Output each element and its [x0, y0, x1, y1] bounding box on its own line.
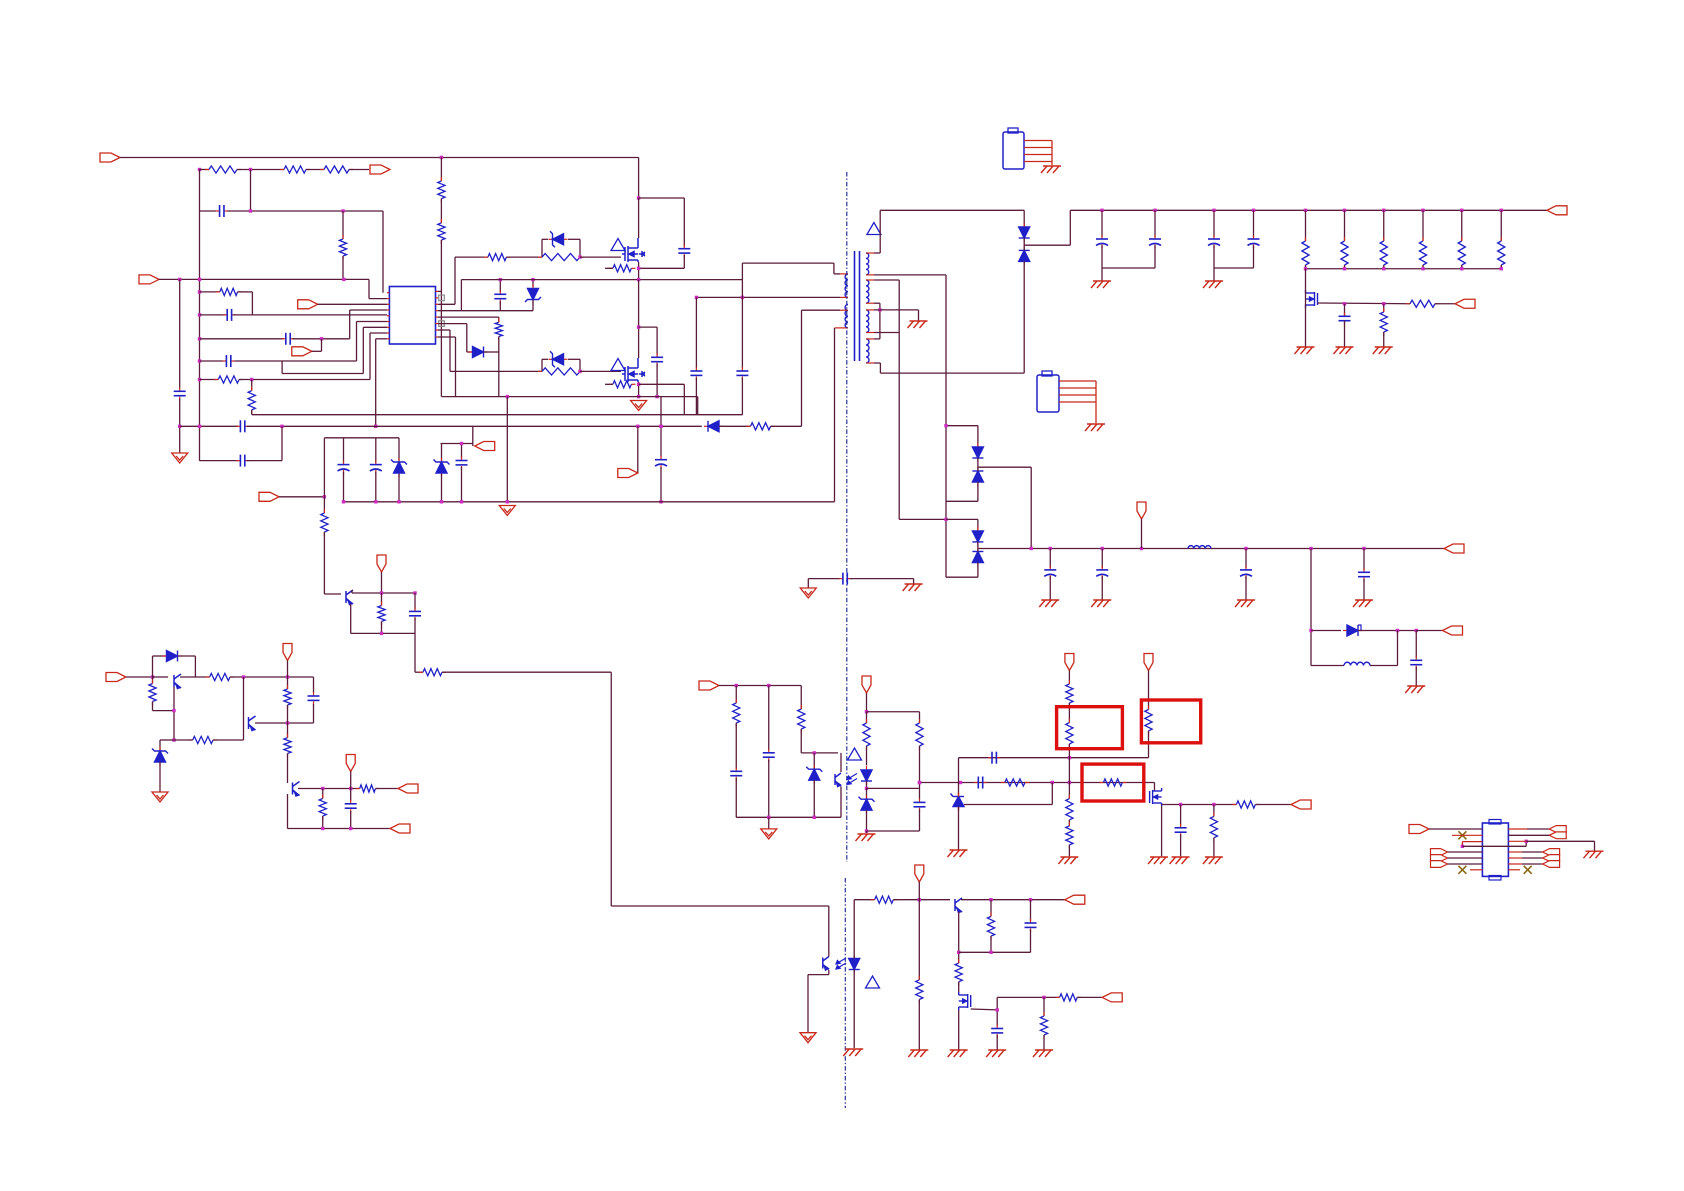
wire — [200, 338, 284, 340]
wire — [1594, 841, 1596, 850]
resistor R — [871, 896, 898, 903]
zener D gate clamp — [549, 231, 568, 247]
ground — [1295, 347, 1315, 354]
junction — [1500, 267, 1503, 270]
diode cathode hook — [1358, 625, 1361, 630]
port VREF — [283, 644, 292, 661]
wire — [874, 274, 946, 276]
wire — [1213, 838, 1215, 857]
capacitor C out — [1096, 235, 1108, 248]
wire — [919, 712, 921, 723]
wire — [1461, 842, 1463, 847]
wire — [281, 426, 283, 460]
wire row gnd — [441, 396, 697, 398]
wire — [438, 336, 456, 338]
junction — [637, 278, 640, 281]
port VCC — [298, 300, 318, 309]
junction — [198, 378, 201, 381]
junction — [1153, 209, 1156, 212]
wire — [1363, 579, 1365, 600]
port data — [1543, 855, 1560, 862]
wire — [735, 723, 737, 769]
wire — [1500, 210, 1502, 241]
resistor R — [189, 736, 217, 743]
wire — [541, 239, 543, 257]
wire — [173, 687, 175, 740]
wire — [656, 364, 658, 397]
resistor R — [284, 734, 291, 758]
pin — [1059, 394, 1096, 396]
junction — [198, 290, 201, 293]
junction — [1382, 267, 1385, 270]
wire — [369, 333, 371, 380]
capacitor C — [914, 798, 926, 811]
resistor R startup 2 — [280, 166, 310, 173]
port — [390, 824, 410, 833]
wire top rail — [120, 157, 639, 159]
wire — [800, 686, 802, 710]
pin — [1508, 840, 1526, 842]
wire — [958, 807, 960, 850]
junction — [957, 951, 960, 954]
ground — [1033, 1050, 1053, 1057]
port FB — [139, 275, 159, 284]
wire — [898, 280, 900, 519]
wire — [1068, 703, 1070, 723]
wire — [638, 198, 640, 238]
wire — [1068, 744, 1070, 799]
wire — [450, 370, 542, 372]
port CTRL — [1455, 299, 1475, 308]
wire — [318, 303, 387, 305]
wire — [440, 199, 442, 223]
wire — [1370, 665, 1398, 667]
wire — [879, 303, 881, 339]
pin — [387, 298, 389, 300]
wire — [813, 753, 815, 769]
wire — [343, 438, 345, 463]
wire — [638, 262, 640, 280]
port VCC — [377, 555, 386, 572]
wire — [1068, 671, 1070, 685]
port +5V — [1444, 544, 1464, 553]
wire — [639, 197, 685, 199]
junction — [198, 313, 201, 316]
capacitor C — [736, 367, 748, 380]
wire — [945, 275, 947, 577]
pin — [387, 309, 389, 311]
resistor R — [916, 719, 923, 750]
wire — [350, 772, 352, 789]
wire — [996, 997, 998, 1026]
highlight box 2 — [1141, 700, 1200, 743]
wire — [541, 359, 543, 371]
capacitor C — [763, 749, 775, 762]
wire — [579, 239, 581, 257]
junction — [341, 209, 344, 212]
junction — [460, 442, 463, 445]
wire — [499, 301, 501, 311]
transistor Q — [174, 674, 181, 689]
wire — [1344, 210, 1346, 241]
wire gate — [971, 1008, 998, 1011]
wire — [1148, 671, 1150, 710]
wire — [990, 936, 992, 952]
junction — [286, 675, 289, 678]
capacitor C — [1025, 919, 1037, 932]
junction — [250, 378, 253, 381]
wire out rail — [880, 209, 1024, 211]
wire — [660, 467, 662, 502]
wire — [381, 572, 383, 593]
wire — [1310, 549, 1312, 666]
wire — [1383, 210, 1385, 241]
junction — [741, 296, 744, 299]
pin — [840, 273, 848, 275]
pin — [436, 310, 439, 312]
wire — [438, 303, 455, 305]
resistor R — [378, 602, 385, 626]
wire — [287, 705, 289, 723]
transformer T1 secondary S2 — [866, 280, 869, 303]
wire — [802, 309, 841, 311]
wire — [1030, 467, 1032, 548]
wire — [369, 298, 387, 300]
wire — [251, 292, 253, 315]
wire — [455, 256, 488, 258]
junction — [342, 500, 345, 503]
wire — [768, 760, 770, 818]
wire — [213, 739, 244, 741]
wire — [251, 410, 253, 415]
pin — [436, 336, 439, 338]
resistor R — [284, 685, 291, 709]
resistor R — [495, 318, 502, 340]
junction — [286, 721, 289, 724]
wire — [1522, 851, 1543, 853]
wire — [288, 828, 391, 830]
wire — [1461, 265, 1463, 269]
wire — [958, 912, 960, 963]
connector J3 notch top — [1489, 820, 1501, 825]
junction — [989, 898, 992, 901]
connector J heatsink — [1003, 132, 1024, 169]
wire — [1435, 303, 1455, 305]
junction — [1042, 996, 1045, 999]
wire — [959, 951, 1031, 953]
warning triangle — [867, 223, 881, 235]
capacitor C out5 — [1096, 566, 1108, 579]
resistor R load — [1341, 237, 1348, 269]
wire — [251, 380, 253, 391]
wire — [605, 267, 613, 269]
resistor R — [319, 795, 326, 821]
wire — [321, 339, 323, 352]
wire — [351, 632, 415, 634]
wire — [1049, 549, 1051, 569]
ground — [1334, 347, 1354, 354]
wire — [438, 310, 533, 312]
wire — [866, 693, 868, 712]
junction — [374, 425, 377, 428]
wire — [153, 676, 169, 678]
zener D gate clamp — [549, 351, 568, 367]
wire — [498, 337, 500, 397]
port AC input — [100, 153, 120, 162]
port — [475, 442, 495, 451]
connector J2 notch — [1042, 371, 1052, 376]
no-connect X — [1524, 866, 1532, 874]
junction — [1460, 209, 1463, 212]
wire — [639, 383, 685, 385]
diode D rect2b — [972, 467, 983, 486]
wire — [1051, 783, 1053, 805]
opto light arrows — [847, 774, 857, 785]
highlight box 1 — [1057, 707, 1123, 749]
diode D aux — [704, 421, 723, 432]
wire — [958, 1010, 960, 1050]
IC U1 PWM controller — [389, 287, 435, 345]
wire comp row — [959, 757, 1149, 759]
wire — [243, 717, 245, 740]
wire — [997, 996, 1059, 998]
diode D — [163, 651, 182, 662]
port 12V sense — [1065, 654, 1074, 671]
wire — [638, 382, 640, 397]
wire — [376, 788, 399, 790]
wire — [1305, 265, 1307, 269]
pin — [387, 338, 389, 340]
capacitor C out — [1248, 235, 1260, 248]
junction — [878, 308, 881, 311]
pin — [387, 292, 389, 294]
wire — [1415, 667, 1417, 686]
no-connect — [439, 321, 445, 327]
wire — [1253, 245, 1255, 268]
capacitor C snubber — [678, 245, 690, 258]
wire — [1527, 828, 1549, 830]
wire — [879, 363, 881, 373]
ground — [1203, 857, 1223, 864]
wire — [637, 426, 639, 473]
port data — [1543, 849, 1560, 856]
wire — [990, 900, 992, 917]
zener D — [859, 795, 875, 814]
port 5V sense — [1144, 654, 1153, 671]
wire — [287, 661, 289, 678]
capacitor C — [730, 767, 742, 780]
optocoupler U4 phototransistor — [823, 957, 829, 971]
wire — [152, 677, 154, 684]
wire — [808, 578, 840, 580]
wire fb row — [919, 782, 1155, 784]
wire — [1030, 900, 1032, 921]
wire — [440, 240, 442, 397]
wire — [293, 338, 350, 340]
junction — [636, 425, 639, 428]
capacitor C comp2 — [988, 752, 1000, 764]
MOSFET Q5 — [1150, 788, 1162, 806]
wire — [913, 579, 915, 584]
wire — [866, 781, 868, 788]
junction — [1252, 209, 1255, 212]
transformer T1 secondary S1 — [866, 253, 869, 275]
wire — [1213, 210, 1215, 237]
capacitor C comp — [974, 777, 986, 789]
port VCC out — [618, 469, 638, 478]
port — [259, 492, 279, 501]
wire — [867, 787, 919, 789]
wire — [461, 467, 463, 502]
pin — [436, 290, 439, 292]
wire — [1213, 268, 1215, 281]
wire — [381, 621, 383, 633]
junction — [1179, 803, 1182, 806]
wire to IC pin1 — [382, 211, 384, 293]
ground — [1584, 851, 1604, 858]
wire — [866, 746, 868, 766]
wire — [918, 1000, 920, 1050]
junction — [918, 781, 921, 784]
wire — [1306, 268, 1502, 270]
MOSFET Q6 — [959, 992, 971, 1010]
junction — [1304, 209, 1307, 212]
capacitor C — [1358, 568, 1370, 581]
port data — [1431, 861, 1448, 868]
wire — [683, 198, 685, 247]
wire — [977, 426, 979, 447]
wire — [1422, 210, 1424, 241]
wire row aux — [180, 425, 239, 427]
wire — [376, 338, 387, 340]
resistor R — [356, 785, 380, 792]
resistor R div — [1066, 822, 1073, 849]
wire — [414, 593, 416, 609]
wire — [200, 360, 223, 362]
resistor R gate — [484, 254, 511, 261]
MOSFET Q3 — [1306, 290, 1318, 308]
pin — [1452, 834, 1482, 836]
wire — [1461, 210, 1463, 241]
junction — [1212, 209, 1215, 212]
wire — [996, 1035, 998, 1049]
resistor R load — [1302, 237, 1309, 269]
junction — [1029, 898, 1032, 901]
junction — [989, 951, 992, 954]
wire long — [611, 905, 829, 907]
wire — [867, 830, 920, 832]
wire — [287, 677, 289, 689]
wire — [1253, 210, 1255, 237]
wire — [568, 358, 580, 360]
port HV — [370, 165, 390, 174]
wire — [441, 444, 443, 462]
wire — [323, 497, 325, 513]
junction — [865, 829, 868, 832]
wire — [357, 321, 388, 323]
wire — [160, 739, 174, 741]
port 5V — [915, 865, 924, 882]
port VBUS — [1409, 825, 1429, 834]
wire — [352, 592, 415, 594]
resistor R — [1210, 812, 1217, 841]
junction — [659, 425, 662, 428]
junction — [172, 738, 175, 741]
wire — [807, 975, 809, 1033]
pin — [387, 321, 389, 323]
pin — [1508, 863, 1522, 865]
wire — [152, 656, 154, 677]
wire — [834, 328, 836, 502]
optocoupler U2 phototransistor — [835, 773, 841, 787]
wire — [696, 296, 840, 298]
capacitor C — [494, 290, 506, 303]
wire — [159, 740, 161, 751]
wire gnd bus — [199, 170, 201, 461]
wire — [178, 655, 195, 657]
wire — [152, 702, 154, 711]
pin — [387, 315, 389, 317]
wire — [946, 576, 978, 578]
optocoupler U2 LED — [861, 766, 872, 785]
wire long — [442, 671, 611, 673]
wire — [683, 384, 685, 414]
wire — [866, 712, 868, 723]
pin — [436, 297, 439, 299]
ground — [1148, 857, 1168, 864]
wire — [506, 256, 542, 258]
wire — [919, 746, 921, 800]
transistor Q aux — [346, 590, 353, 605]
wire — [179, 399, 181, 453]
wire — [415, 671, 423, 673]
wire — [961, 899, 1065, 901]
junction — [1382, 302, 1385, 305]
wire — [1102, 267, 1155, 269]
wire — [1383, 304, 1385, 312]
ground — [1405, 686, 1425, 693]
wire — [854, 899, 874, 901]
capacitor C — [216, 205, 228, 217]
wire — [235, 360, 357, 362]
transformer T1 secondary S4 — [866, 339, 869, 363]
wire — [695, 297, 697, 368]
wire — [1148, 731, 1150, 743]
wire — [1526, 840, 1594, 842]
shunt regulator U3 TL431 — [951, 793, 965, 811]
resistor R — [206, 673, 234, 680]
wire — [349, 169, 369, 171]
wire — [1068, 820, 1070, 826]
resistor R select — [1099, 779, 1126, 786]
wire — [362, 327, 364, 373]
pin — [436, 323, 439, 325]
resistor R bleed1 — [438, 177, 445, 203]
wire — [736, 816, 841, 818]
junction — [198, 337, 201, 340]
ground — [1373, 347, 1393, 354]
wire — [287, 754, 289, 784]
junction — [1309, 629, 1312, 632]
port 3V3 — [1443, 626, 1463, 635]
junction — [655, 395, 658, 398]
junction — [578, 370, 581, 373]
wire — [697, 397, 699, 415]
wire — [180, 676, 210, 678]
warning triangle — [611, 239, 625, 251]
port — [398, 784, 418, 793]
wire — [800, 729, 802, 753]
